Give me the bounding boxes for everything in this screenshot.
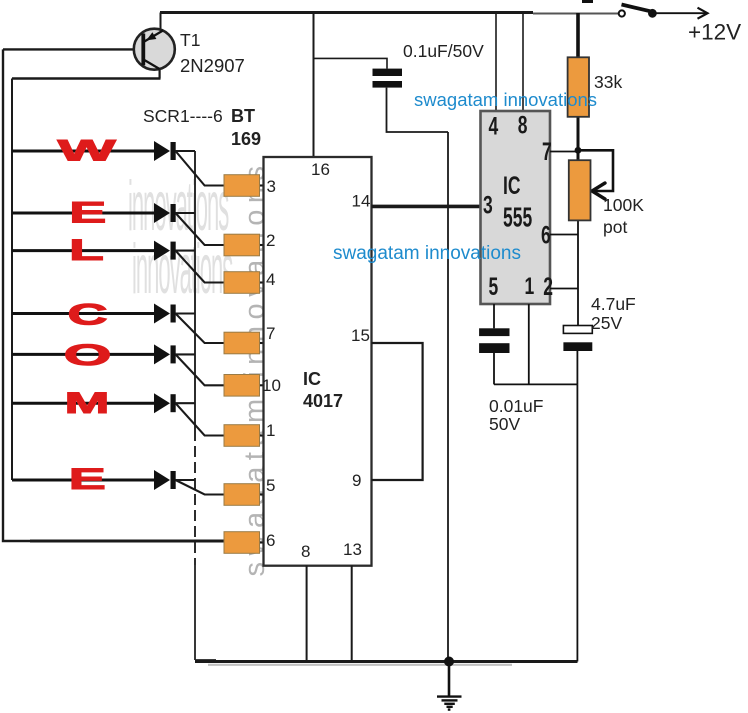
- svg-text:IC: IC: [503, 172, 521, 200]
- svg-text:15: 15: [351, 326, 370, 345]
- svg-text:1: 1: [525, 272, 535, 300]
- svg-text:3: 3: [483, 190, 493, 219]
- svg-text:13: 13: [343, 540, 362, 559]
- svg-text:8: 8: [518, 110, 528, 139]
- svg-text:555: 555: [503, 201, 532, 232]
- svg-text:0.01uF: 0.01uF: [489, 396, 543, 416]
- svg-text:BT: BT: [231, 106, 255, 126]
- svg-text:W: W: [58, 134, 116, 167]
- svg-text:2N2907: 2N2907: [180, 55, 245, 76]
- svg-text:T1: T1: [180, 30, 200, 50]
- svg-text:swagatam innovations: swagatam innovations: [414, 89, 597, 110]
- svg-text:7: 7: [266, 324, 275, 343]
- svg-text:E: E: [69, 196, 106, 229]
- svg-text:16: 16: [311, 160, 330, 179]
- svg-text:O: O: [64, 339, 112, 372]
- svg-text:50V: 50V: [489, 414, 520, 434]
- svg-text:IC: IC: [303, 369, 321, 389]
- svg-text:3: 3: [267, 177, 276, 196]
- svg-text:8: 8: [301, 542, 310, 561]
- svg-text:9: 9: [352, 471, 361, 490]
- svg-text:SCR1----6: SCR1----6: [143, 106, 223, 126]
- svg-text:10: 10: [262, 376, 281, 395]
- svg-text:5: 5: [266, 476, 275, 495]
- svg-text:5: 5: [489, 272, 499, 301]
- svg-text:E: E: [69, 463, 106, 496]
- svg-text:L: L: [69, 233, 104, 267]
- svg-text:innovations: innovations: [132, 231, 233, 309]
- svg-text:4: 4: [266, 270, 275, 289]
- svg-text:0.1uF/50V: 0.1uF/50V: [403, 41, 484, 61]
- svg-text:pot: pot: [603, 217, 627, 237]
- svg-text:14: 14: [352, 192, 371, 211]
- svg-text:6: 6: [541, 220, 551, 249]
- svg-text:4: 4: [489, 111, 499, 140]
- svg-text:M: M: [65, 386, 110, 420]
- svg-text:33k: 33k: [594, 72, 622, 92]
- svg-text:2: 2: [543, 272, 553, 301]
- svg-text:169: 169: [231, 129, 261, 149]
- svg-text:swagatam innovations: swagatam innovations: [333, 243, 521, 264]
- svg-text:1: 1: [266, 421, 275, 440]
- svg-text:+12V: +12V: [688, 20, 741, 45]
- svg-text:4017: 4017: [303, 391, 343, 411]
- svg-text:25V: 25V: [591, 313, 622, 333]
- svg-text:C: C: [67, 298, 107, 331]
- svg-text:4.7uF: 4.7uF: [591, 294, 636, 314]
- svg-text:100K: 100K: [603, 195, 644, 215]
- svg-text:7: 7: [542, 137, 552, 166]
- svg-text:6: 6: [266, 531, 275, 550]
- svg-text:2: 2: [266, 231, 275, 250]
